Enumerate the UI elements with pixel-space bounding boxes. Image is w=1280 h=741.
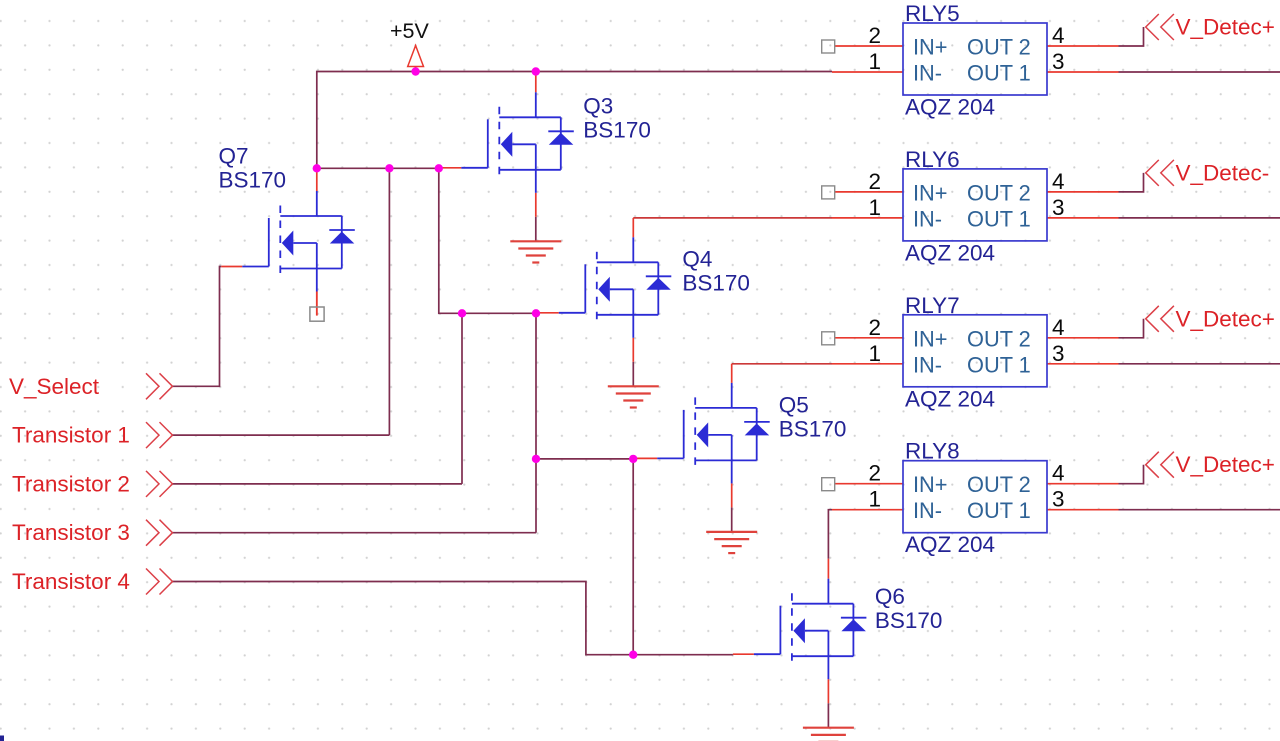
svg-text:OUT 2: OUT 2 (967, 180, 1031, 205)
svg-text:1: 1 (868, 195, 881, 220)
svg-text:Q4: Q4 (682, 247, 712, 272)
svg-text:1: 1 (868, 49, 881, 74)
svg-text:OUT 1: OUT 1 (967, 352, 1031, 377)
svg-text:IN+: IN+ (913, 472, 948, 497)
svg-text:IN+: IN+ (913, 35, 948, 60)
svg-text:2: 2 (868, 461, 881, 486)
svg-text:BS170: BS170 (219, 168, 287, 193)
svg-text:Q7: Q7 (219, 144, 249, 169)
svg-text:Q6: Q6 (875, 584, 905, 609)
svg-text:2: 2 (868, 169, 881, 194)
svg-text:IN-: IN- (913, 352, 942, 377)
svg-text:2: 2 (868, 23, 881, 48)
svg-text:V_Detec-: V_Detec- (1176, 160, 1270, 185)
svg-text:1: 1 (868, 341, 881, 366)
svg-text:+5V: +5V (390, 19, 430, 43)
svg-text:OUT 1: OUT 1 (967, 61, 1031, 86)
svg-text:OUT 2: OUT 2 (967, 326, 1031, 351)
svg-text:BS170: BS170 (583, 118, 651, 143)
svg-text:2: 2 (868, 315, 881, 340)
svg-text:V_Detec+: V_Detec+ (1176, 15, 1275, 40)
svg-text:3: 3 (1052, 341, 1065, 366)
svg-text:BS170: BS170 (779, 417, 847, 442)
svg-text:V_Detec+: V_Detec+ (1176, 306, 1275, 331)
svg-text:IN+: IN+ (913, 180, 948, 205)
svg-text:Q5: Q5 (779, 393, 809, 418)
svg-text:IN-: IN- (913, 206, 942, 231)
svg-text:OUT 2: OUT 2 (967, 35, 1031, 60)
svg-text:OUT 2: OUT 2 (967, 472, 1031, 497)
svg-text:OUT 1: OUT 1 (967, 206, 1031, 231)
svg-text:AQZ 204: AQZ 204 (905, 532, 995, 557)
svg-text:RLY7: RLY7 (905, 293, 960, 318)
svg-text:Q3: Q3 (583, 94, 613, 119)
svg-text:RLY6: RLY6 (905, 147, 960, 172)
svg-text:Transistor 2: Transistor 2 (12, 471, 130, 496)
svg-text:3: 3 (1052, 195, 1065, 220)
svg-text:IN+: IN+ (913, 326, 948, 351)
svg-text:Transistor 3: Transistor 3 (12, 520, 130, 545)
svg-text:4: 4 (1052, 169, 1065, 194)
svg-text:RLY5: RLY5 (905, 1, 960, 26)
svg-text:AQZ 204: AQZ 204 (905, 240, 995, 265)
svg-text:4: 4 (1052, 461, 1065, 486)
svg-text:1: 1 (868, 487, 881, 512)
svg-text:IN-: IN- (913, 61, 942, 86)
svg-text:3: 3 (1052, 49, 1065, 74)
svg-text:V_Select: V_Select (9, 374, 100, 399)
svg-text:IN-: IN- (913, 498, 942, 523)
svg-text:AQZ 204: AQZ 204 (905, 386, 995, 411)
svg-text:V_Detec+: V_Detec+ (1176, 452, 1275, 477)
svg-text:4: 4 (1052, 23, 1065, 48)
svg-text:3: 3 (1052, 487, 1065, 512)
svg-text:BS170: BS170 (875, 608, 943, 633)
svg-text:RLY8: RLY8 (905, 439, 960, 464)
svg-text:Transistor 1: Transistor 1 (12, 423, 130, 448)
svg-text:BS170: BS170 (682, 271, 750, 296)
svg-text:Transistor 4: Transistor 4 (12, 569, 130, 594)
svg-text:OUT 1: OUT 1 (967, 498, 1031, 523)
svg-text:4: 4 (1052, 315, 1065, 340)
svg-text:AQZ 204: AQZ 204 (905, 95, 995, 120)
